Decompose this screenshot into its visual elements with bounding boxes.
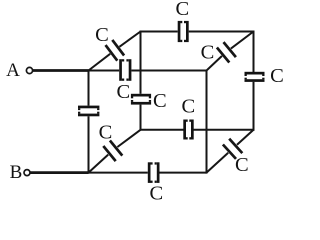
wire back-bottom edge bbox=[141, 129, 184, 131]
wire back-right edge bbox=[253, 31, 255, 73]
svg-text:C: C bbox=[182, 96, 196, 118]
svg-text:C: C bbox=[175, 0, 189, 20]
terminal A bbox=[26, 67, 32, 73]
svg-text:C: C bbox=[201, 42, 215, 64]
capacitor C5 back-left edge bbox=[131, 94, 151, 97]
wire diagonal FTR-BTR bbox=[207, 56, 222, 71]
capacitor C7 back-right edge bbox=[245, 72, 265, 75]
wire front-right edge bbox=[206, 70, 208, 174]
wire back-left edge bbox=[140, 31, 142, 94]
wire front-top edge bbox=[89, 70, 120, 72]
capacitor C3 front-top edge bbox=[119, 59, 122, 81]
wire diagonal FTL-BTL bbox=[89, 54, 111, 71]
capacitor C9 diagonal FBL-BBL bbox=[103, 146, 115, 161]
capacitor C10 diagonal FBR-BBR bbox=[223, 145, 236, 159]
capacitor C6 front-left edge bbox=[78, 106, 99, 109]
capacitor C11 front-bottom edge bbox=[148, 162, 151, 183]
capacitor C1 back-top edge bbox=[178, 21, 181, 42]
capacitor C2 diagonal FTL-BTL bbox=[106, 45, 118, 61]
wire diagonal FBR-BBR bbox=[207, 153, 229, 173]
wire A lead bbox=[33, 69, 89, 72]
svg-text:B: B bbox=[10, 162, 23, 183]
svg-text:C: C bbox=[270, 65, 284, 87]
svg-text:C: C bbox=[117, 81, 131, 103]
svg-text:C: C bbox=[95, 24, 109, 46]
svg-text:C: C bbox=[99, 122, 113, 144]
capacitor C8 back-bottom edge bbox=[183, 120, 186, 140]
wire back-top edge bbox=[141, 31, 178, 33]
terminal B bbox=[24, 170, 30, 176]
wire front-bottom edge bbox=[89, 172, 148, 174]
svg-text:C: C bbox=[235, 154, 249, 176]
capacitor C4 diagonal FTR-BTR bbox=[217, 48, 229, 63]
wire front-left edge bbox=[88, 70, 90, 106]
wire diagonal FBL-BBL bbox=[89, 155, 109, 173]
svg-text:A: A bbox=[6, 60, 20, 81]
wire B lead bbox=[30, 171, 88, 174]
svg-text:C: C bbox=[149, 183, 163, 205]
svg-text:C: C bbox=[153, 90, 167, 112]
